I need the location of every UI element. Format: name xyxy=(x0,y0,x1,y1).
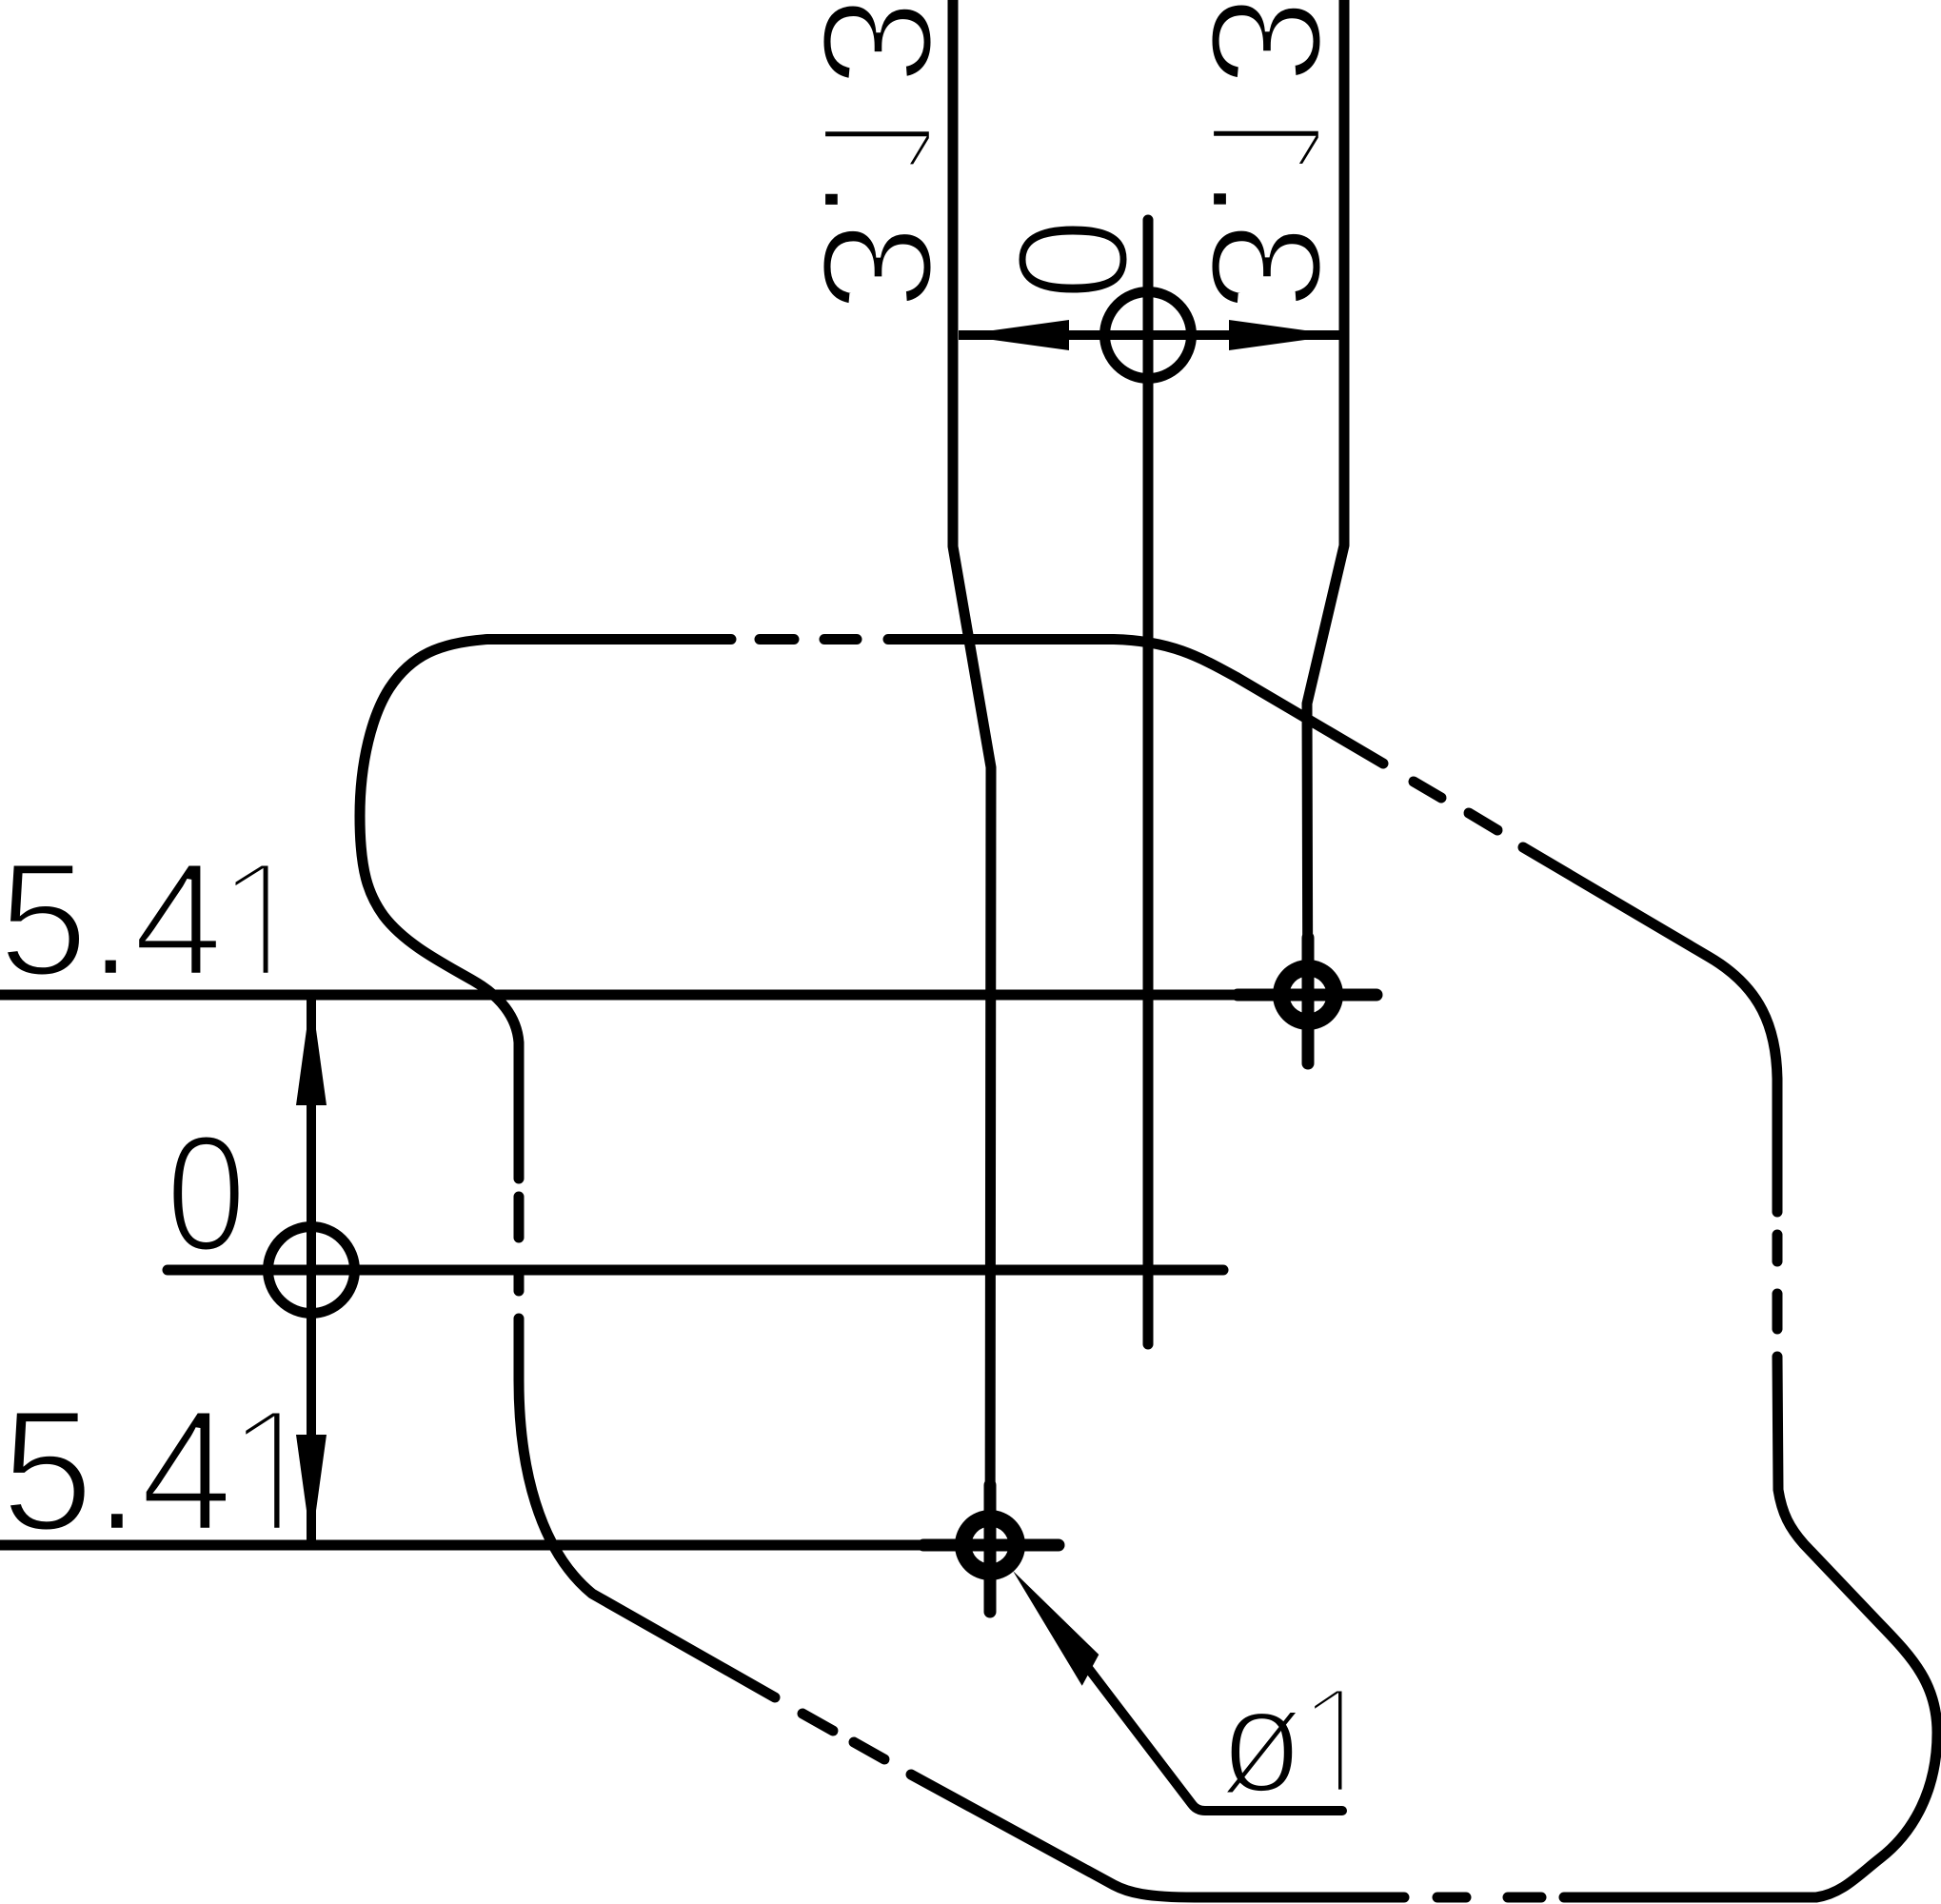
wire outline diagonal dash b xyxy=(1469,813,1497,830)
label 5.41 upper xyxy=(5,863,270,977)
wire outline top dash a xyxy=(760,634,794,645)
arrowhead right of 3.13 dimension xyxy=(1229,320,1339,350)
wire extension line right lead xyxy=(1307,0,1344,1063)
arrowhead of leader xyxy=(1013,1571,1099,1686)
outline right upper corner xyxy=(1523,847,1777,1212)
wire outline left dash b xyxy=(514,1197,525,1238)
wire 0 datum horizontal line xyxy=(168,1265,1223,1276)
outline right S-curve to bottom xyxy=(1564,1357,1937,1897)
datum target circle top xyxy=(1105,292,1192,379)
arrowhead left of 3.13 dimension xyxy=(959,320,1069,350)
wire extension line left lead xyxy=(953,0,991,1612)
leader line for pad diameter xyxy=(1076,1652,1342,1811)
wire outline left dash a xyxy=(514,1273,525,1291)
outline lower-left S-curve xyxy=(519,1319,775,1697)
label 0 left xyxy=(171,1135,241,1252)
label 0 top (rotated) xyxy=(1017,224,1129,295)
outline top and left ear xyxy=(360,640,731,1180)
node centerline vertical from top datum xyxy=(1143,220,1154,1344)
dimension line 3.13 horizontal xyxy=(959,330,1339,340)
wire outline bottom dash b xyxy=(1437,1893,1466,1903)
wire outline lower-left dash b xyxy=(802,1714,833,1731)
label diameter ø1 xyxy=(1222,1689,1344,1795)
outline top right diagonal xyxy=(888,640,1383,764)
wire outline bottom dash a xyxy=(1508,1893,1541,1903)
arrowhead down of 5.41 dimension xyxy=(296,1435,327,1545)
label 3.13 right (rotated) xyxy=(1210,3,1322,306)
outline bottom left corner xyxy=(911,1775,1404,1897)
label 5.41 lower xyxy=(8,1411,282,1532)
pad P1 top right xyxy=(1238,938,1377,1063)
wire 5.41 lower horizontal line xyxy=(0,1540,1059,1551)
wire 5.41 upper horizontal line xyxy=(0,990,1377,1001)
wire outline top dash b xyxy=(824,634,857,645)
wire outline lower-left dash a xyxy=(854,1742,884,1759)
dimension line 5.41 vertical xyxy=(307,995,316,1545)
wire outline diagonal dash a xyxy=(1414,782,1441,798)
arrowhead up of 5.41 dimension xyxy=(296,995,327,1105)
wire outline right dot xyxy=(1773,1235,1783,1261)
wire outline right dash xyxy=(1773,1294,1783,1329)
label 3.13 left (rotated) xyxy=(822,4,933,306)
pad P2 bottom xyxy=(923,1485,1059,1612)
datum target circle left xyxy=(268,1227,355,1314)
